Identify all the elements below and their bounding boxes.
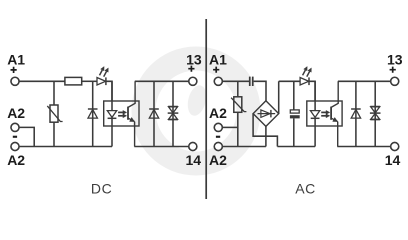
label 14 (AC) <box>385 152 401 168</box>
wire: DC output top rail (13) <box>135 80 189 82</box>
wire: DC bottom rail input side <box>19 146 112 148</box>
divider line between DC and AC halves <box>205 19 207 199</box>
svg-text:AC: AC <box>295 181 316 197</box>
label 14 (DC) <box>186 152 202 168</box>
svg-text:13: 13 <box>186 51 202 67</box>
wire: bridge to LED (AC top rail) <box>279 80 300 82</box>
svg-text:A1: A1 <box>209 51 227 67</box>
capacitor C1 (series) <box>249 77 254 86</box>
optocoupler U2 (AC) box <box>307 101 342 126</box>
wire: DC bottom rail output side <box>134 146 188 148</box>
optocoupler U1 (DC) LED <box>107 81 116 146</box>
plus sign at A1 (DC) <box>11 67 17 73</box>
label 13 (AC) <box>387 51 403 67</box>
terminal A2 lower (DC) <box>11 142 19 150</box>
wire: capacitor to bridge (AC) <box>254 81 266 101</box>
optocoupler U1 (DC) phototransistor <box>128 81 135 146</box>
svg-text:13: 13 <box>387 51 403 67</box>
LED L1 (DC) with light arrows <box>97 67 108 86</box>
plus sign at 13 (DC) <box>188 66 194 72</box>
svg-text:A1: A1 <box>7 51 25 67</box>
varistor RV2 (AC) <box>231 97 246 113</box>
bridge rectifier B1 inner diode <box>258 110 276 118</box>
svg-text:A2: A2 <box>7 152 25 168</box>
terminal A2 upper (DC) <box>11 123 19 131</box>
wire: AC bottom rail output side <box>337 146 390 148</box>
terminal A2 upper (AC) <box>214 123 222 131</box>
LED L2 (AC) with light arrows <box>300 67 311 86</box>
label A2 lower (AC) <box>209 152 227 168</box>
optocoupler U1 (DC) box <box>104 101 139 126</box>
resistor R1 <box>65 77 82 85</box>
wire: AC bottom rail A2 side <box>222 146 266 148</box>
svg-text:14: 14 <box>186 152 202 168</box>
terminal 14 (DC) <box>189 142 197 150</box>
plus sign at A1 (AC) <box>213 67 219 73</box>
wire: AC bottom rail DC- side <box>277 146 315 148</box>
terminal A2 lower (AC) <box>214 142 222 150</box>
wire: varistor to bottom rail (AC) <box>237 112 239 146</box>
svg-text:A2: A2 <box>209 152 227 168</box>
wire: AC output top rail (13) <box>338 80 391 82</box>
optocoupler U2 (AC) phototransistor <box>331 81 338 146</box>
wire: A1 to resistor (DC top rail) <box>19 80 65 82</box>
svg-text:A2: A2 <box>7 105 25 121</box>
diode D3 (AC output) <box>351 81 361 146</box>
label A2 lower (DC) <box>7 152 25 168</box>
terminal A1 (DC) <box>11 77 19 85</box>
label A1 (AC) <box>209 51 227 67</box>
diode D2 (DC output) <box>149 81 159 146</box>
svg-text:DC: DC <box>91 181 112 197</box>
label AC <box>295 181 316 197</box>
plus sign at 13 (AC) <box>390 67 396 73</box>
varistor RV1 (DC) <box>47 105 62 122</box>
optocoupler U2 (AC) LED <box>310 81 319 146</box>
label DC <box>91 181 112 197</box>
wire: varistor to bottom rail (DC) <box>53 122 55 146</box>
wire: LED to opto corner (AC) <box>309 81 315 101</box>
wire: LED to opto corner (DC) <box>106 81 112 101</box>
suppressor TVS2 (AC output) <box>370 81 381 146</box>
bridge rectifier B1 diamond <box>253 101 279 127</box>
wire: capacitor C2 to DC- rail <box>293 118 295 146</box>
terminal A1 (AC) <box>214 77 222 85</box>
watermark: large light-gray logo ring <box>132 47 261 176</box>
terminal 13 (AC) <box>391 77 399 85</box>
optocoupler U2 (AC) light arrows <box>321 110 330 117</box>
label 13 (DC) <box>186 51 202 67</box>
wire: varistor branch drop (AC) <box>237 81 239 97</box>
wire: bridge right vertex riser (AC) <box>278 81 280 113</box>
wire: varistor branch drop (DC) <box>53 81 55 105</box>
capacitor C2 (electrolytic) drop <box>293 81 295 110</box>
label A1 (DC) <box>7 51 25 67</box>
terminal 14 (AC) <box>391 142 399 150</box>
svg-text:A2: A2 <box>209 105 227 121</box>
wire: A2 upper to varistor branch (AC) <box>222 126 238 128</box>
minus sign (AC) <box>216 136 220 138</box>
svg-text:14: 14 <box>385 152 401 168</box>
optocoupler U1 (DC) light arrows <box>118 110 127 117</box>
minus sign (DC) <box>13 136 17 138</box>
wire: bridge left vertex jog to DC- rail (AC) <box>253 114 277 147</box>
terminal 13 (DC) <box>189 77 197 85</box>
label A2 upper (DC) <box>7 105 25 121</box>
wire: A2 upper jog to bottom rail (DC) <box>19 127 34 146</box>
capacitor C2 (electrolytic) <box>290 110 300 118</box>
diode D1 (DC input protection) <box>88 81 98 146</box>
wire: bridge bottom vertex to A2 rail (AC) <box>265 126 267 146</box>
label A2 upper (AC) <box>209 105 227 121</box>
suppressor TVS1 (DC output) <box>168 81 179 146</box>
wire: resistor to LED (DC top rail) <box>82 80 97 82</box>
wire: A1 to capacitor (AC top rail) <box>222 80 249 82</box>
